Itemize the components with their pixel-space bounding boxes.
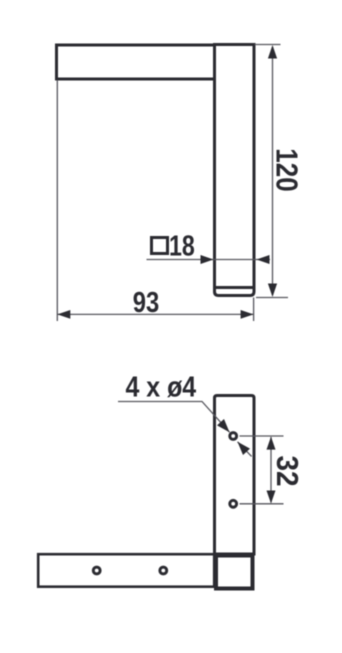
svg-text:93: 93 (133, 286, 159, 319)
svg-text:4 x ø4: 4 x ø4 (126, 371, 197, 403)
svg-text:18: 18 (169, 229, 195, 262)
svg-text:120: 120 (269, 148, 304, 191)
svg-text:32: 32 (270, 455, 305, 486)
